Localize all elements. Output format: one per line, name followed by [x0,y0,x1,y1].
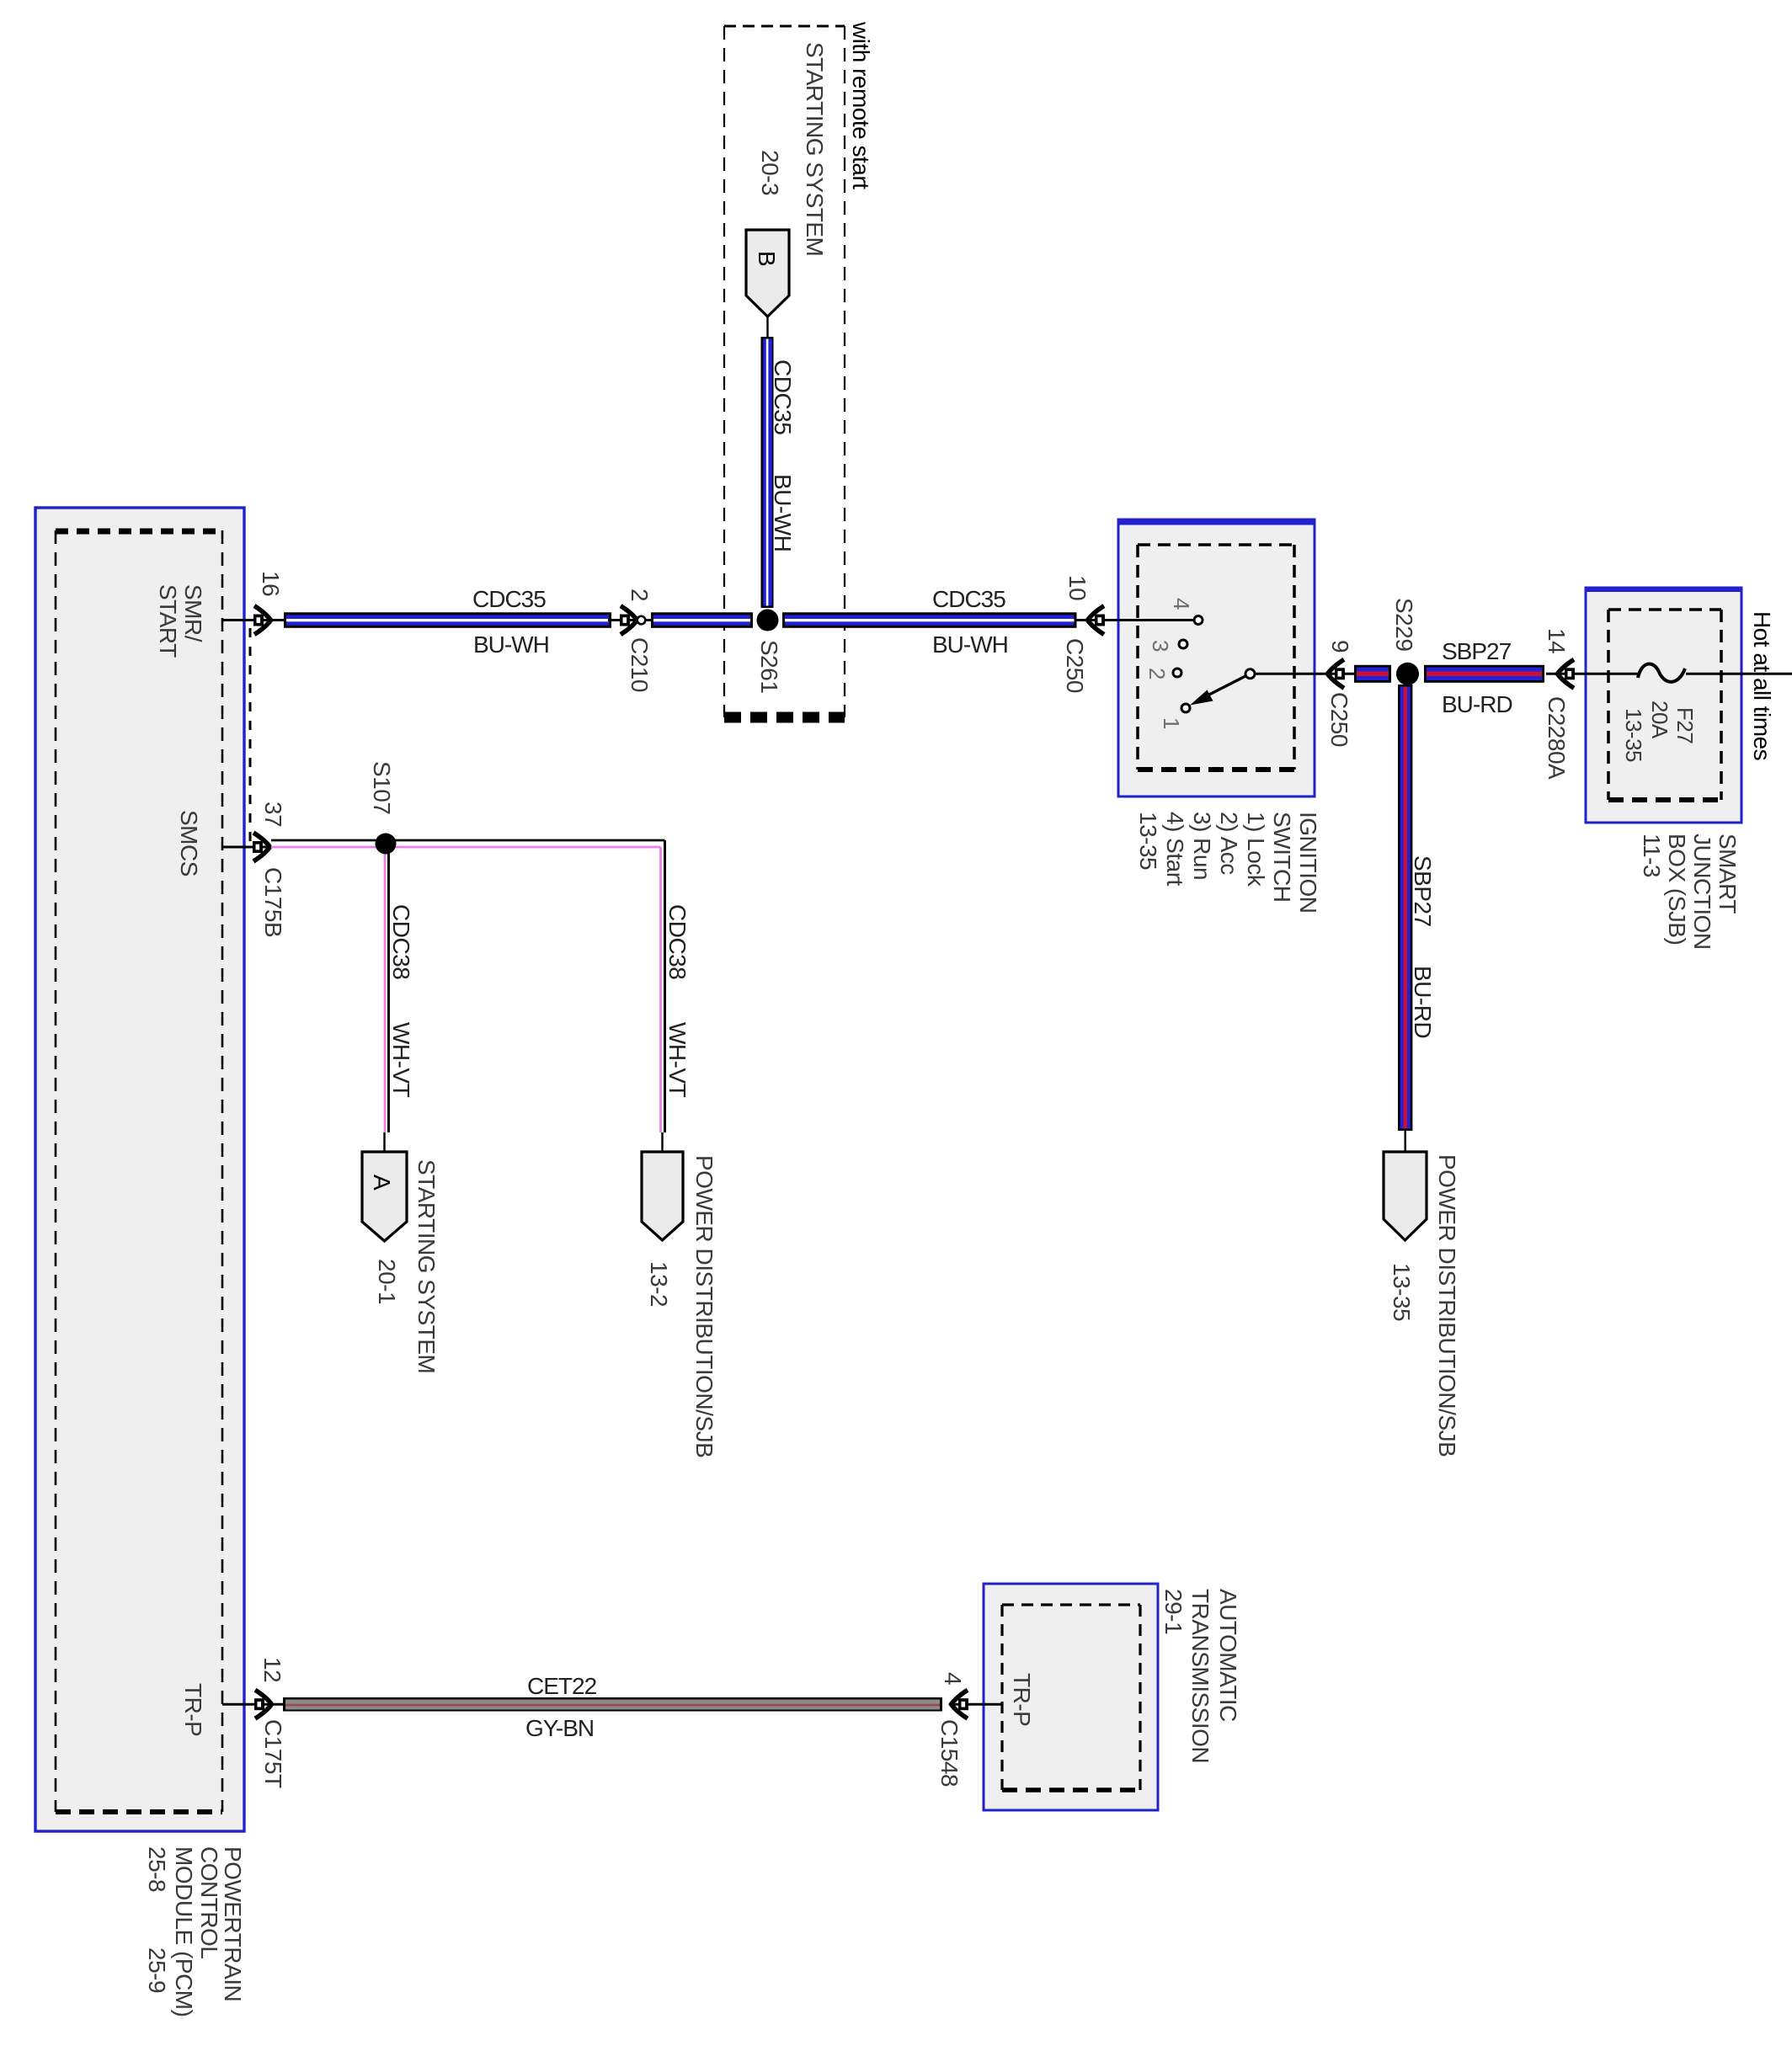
lead to POWER DISTRIBUTION/SJB 13-35 connector [1404,1131,1405,1152]
svg-text:BU-RD: BU-RD [1442,691,1512,717]
wire SBP27 BU-RD S229 to SJB C2280A [1424,665,1544,683]
svg-text:POWER DISTRIBUTION/SJB: POWER DISTRIBUTION/SJB [1434,1154,1460,1457]
off-page connector B (starting system 20-3) [746,230,789,317]
wire CDC38 WH-VT left branch white conductor [387,840,390,1132]
svg-text:GY-BN: GY-BN [525,1715,594,1741]
svg-text:BU-WH: BU-WH [932,631,1008,658]
svg-text:11-3: 11-3 [1639,834,1665,877]
svg-text:20-3: 20-3 [757,150,783,195]
off-page connector to power distribution 13-2 [642,1152,683,1240]
ignition switch contact 1 [1181,704,1190,712]
wire CDC38 WH-VT right branch violet conductor [659,847,662,1132]
svg-text:1: 1 [1159,717,1184,729]
ignition switch inner dashed outline [1138,543,1294,546]
ignition switch output line common to pin 9 [1255,673,1354,675]
svg-text:SBP27: SBP27 [1442,638,1512,664]
wire CDC35 BU-WH segment C210 to S261 [651,612,753,628]
pin 14 arrow C2280A [1558,659,1575,688]
svg-text:STARTING SYSTEM: STARTING SYSTEM [413,1159,440,1373]
svg-text:SMART: SMART [1715,834,1741,914]
svg-text:2: 2 [1144,668,1170,679]
svg-text:CDC38: CDC38 [388,904,414,979]
lead line pin 12 [222,1703,283,1706]
svg-text:C1548: C1548 [936,1719,963,1787]
svg-text:AUTOMATIC: AUTOMATIC [1215,1589,1241,1722]
svg-text:A: A [369,1175,395,1191]
svg-text:BU-RD: BU-RD [1410,966,1436,1038]
ignition switch feed line pin10 to contact 4 [1077,619,1195,621]
svg-text:1) Lock: 1) Lock [1243,812,1269,887]
connector C210 inline symbol [608,619,653,621]
svg-text:13-35: 13-35 [1621,708,1646,762]
svg-text:CDC35: CDC35 [932,586,1005,612]
svg-text:TR-P: TR-P [180,1683,206,1736]
svg-text:4: 4 [1169,598,1194,610]
component box: Ignition Switch [1118,519,1315,796]
svg-text:2) Acc: 2) Acc [1216,812,1242,875]
svg-text:WH-VT: WH-VT [388,1022,414,1098]
svg-text:IGNITION: IGNITION [1295,812,1321,913]
ignition switch common contact [1245,669,1255,679]
pin 10 arrow C250 [1088,606,1105,635]
svg-text:POWER DISTRIBUTION/SJB: POWER DISTRIBUTION/SJB [691,1155,717,1457]
svg-text:C175T: C175T [260,1719,286,1788]
component box: Powertrain Control Module (PCM) [35,508,244,1831]
svg-text:S229: S229 [1391,598,1417,651]
dashed connector link pin16-pin37 [249,628,252,842]
svg-text:4) Start: 4) Start [1162,812,1188,887]
wire CDC35 BU-WH branch from connector B [761,337,774,608]
svg-text:13-35: 13-35 [1135,812,1161,870]
svg-text:SMCS: SMCS [176,810,202,876]
wire CDC38 WH-VT left branch violet conductor [384,847,387,1132]
svg-text:BOX (SJB): BOX (SJB) [1664,834,1690,945]
pin 37 arrow at PCM [253,833,270,861]
svg-text:37: 37 [260,802,286,827]
SJB inner dashed fuse outline [1608,608,1721,611]
svg-text:S261: S261 [756,640,782,693]
off-page connector A (starting system 20-1) [362,1152,407,1241]
lead from connector B tip [766,317,768,338]
svg-text:C250: C250 [1062,638,1088,693]
lead line pin 16 [222,619,284,621]
svg-text:20A: 20A [1647,701,1672,739]
svg-text:JUNCTION: JUNCTION [1689,834,1715,950]
ignition switch contact 2 [1173,669,1181,677]
splice S261 [757,610,779,631]
SJB fuse feed line Hot at all times [1546,673,1639,675]
svg-text:TRANSMISSION: TRANSMISSION [1187,1589,1213,1763]
svg-text:2: 2 [627,589,653,601]
svg-text:13-35: 13-35 [1389,1263,1415,1321]
svg-text:SBP27: SBP27 [1410,855,1436,927]
svg-text:16: 16 [258,571,284,596]
svg-text:SWITCH: SWITCH [1269,812,1295,902]
svg-text:C2280A: C2280A [1544,696,1570,780]
svg-text:12: 12 [259,1657,285,1682]
dashed option box: with remote start [724,25,845,28]
svg-text:WH-VT: WH-VT [664,1022,691,1098]
wire CDC35 BU-WH segment S261 to C250 [782,612,1077,628]
svg-text:C175B: C175B [260,867,286,937]
svg-text:TR-P: TR-P [1009,1673,1035,1726]
pin 4 arrow at transmission [952,1690,968,1718]
svg-text:START: START [155,584,181,658]
splice S107 [376,834,397,855]
svg-text:Hot at all times: Hot at all times [1749,611,1775,760]
svg-text:MODULE (PCM): MODULE (PCM) [171,1846,197,2016]
svg-text:C250: C250 [1326,692,1352,747]
svg-text:with remote start: with remote start [848,21,874,189]
pin 12 arrow at PCM [255,1690,272,1718]
PCM inner dashed connector outline [56,529,222,535]
svg-text:CET22: CET22 [527,1673,597,1699]
svg-text:S107: S107 [369,761,395,814]
svg-text:CDC38: CDC38 [664,904,691,979]
ignition switch movable arm [1204,676,1246,698]
splice S229 [1396,663,1419,685]
svg-text:3) Run: 3) Run [1189,812,1215,880]
wire CDC38 WH-VT horizontal white conductor [271,839,665,842]
svg-text:BU-WH: BU-WH [473,631,549,658]
ignition switch contact 3 [1179,640,1187,648]
svg-text:10: 10 [1064,575,1091,600]
svg-text:STARTING SYSTEM: STARTING SYSTEM [802,42,828,256]
svg-text:3: 3 [1148,640,1173,652]
off-page connector to power distribution 13-35 [1384,1152,1427,1240]
ignition switch contact 4 [1194,616,1203,625]
svg-text:20-1: 20-1 [374,1259,400,1304]
svg-text:25-8: 25-8 [144,1846,170,1892]
wire CDC35 BU-WH segment PCM pin16 to C210 [284,612,611,628]
lead to POWER DISTRIBUTION/SJB 13-2 connector [661,1132,663,1152]
svg-text:C210: C210 [627,637,653,692]
lead line pin 37 [222,846,271,849]
component box: Smart Junction Box (SJB) [1586,588,1741,823]
svg-text:14: 14 [1544,628,1570,653]
svg-text:F27: F27 [1672,707,1698,743]
svg-text:POWERTRAIN: POWERTRAIN [220,1846,246,2001]
pin 16 arrow at PCM [254,606,271,635]
svg-text:CONTROL: CONTROL [196,1846,222,1958]
svg-text:B: B [754,251,780,266]
wire SBP27 BU-RD C250 to S229 [1354,665,1391,683]
transmission inner dashed outline [1002,1603,1140,1606]
pin 9 arrow C250 [1328,659,1345,688]
svg-text:9: 9 [1327,640,1353,653]
wire CET22 GY-BN PCM pin12 to transmission [283,1697,942,1712]
svg-text:13-2: 13-2 [646,1261,672,1307]
svg-text:CDC35: CDC35 [770,360,796,434]
svg-text:29-1: 29-1 [1160,1589,1187,1634]
svg-text:CDC35: CDC35 [472,586,546,612]
svg-text:SMR/: SMR/ [180,584,206,642]
lead to connector A [383,1132,385,1152]
svg-text:4: 4 [940,1672,966,1685]
wire SBP27 BU-RD vertical branch [1398,685,1412,1131]
fuse F27 element [1638,663,1685,681]
component box: Automatic Transmission [984,1584,1158,1810]
lead line transmission pin 4 [953,1703,1002,1706]
wire CDC38 WH-VT right branch white conductor [664,840,666,1132]
svg-text:BU-WH: BU-WH [770,474,796,551]
svg-text:25-9: 25-9 [144,1947,170,1993]
wire CDC38 WH-VT horizontal violet conductor [271,846,661,849]
